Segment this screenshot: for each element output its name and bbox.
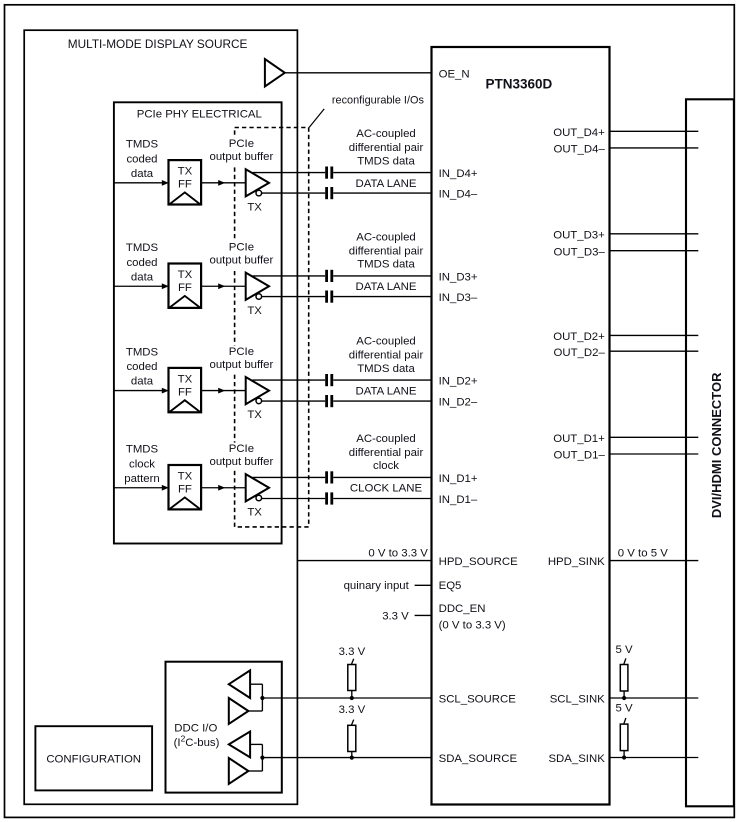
wire IN_D3+ [253,275,326,277]
svg-text:DVI/HDMI CONNECTOR: DVI/HDMI CONNECTOR [709,372,724,518]
svg-text:IN_D4+: IN_D4+ [439,168,478,180]
wire OUT_D4+ [610,130,699,132]
wire HPD_SOURCE [297,560,431,562]
svg-text:TMDS data: TMDS data [357,259,415,271]
svg-text:TMDS: TMDS [126,444,159,456]
wire OUT_D2- [610,350,699,352]
svg-text:PCIe: PCIe [229,346,254,358]
svg-text:SDA_SOURCE: SDA_SOURCE [439,753,518,765]
svg-text:TX: TX [247,409,262,421]
wire SDA_SOURCE [262,757,431,759]
wire IN_D1- [262,498,326,500]
supply tick (SCL 5V) [624,658,626,664]
svg-text:HPD_SINK: HPD_SINK [548,556,605,568]
buffer PCIe TX (D3) [246,273,269,300]
wire TX FF to PCIe output buffer (D1) [201,487,246,489]
junction SCL [260,696,264,700]
buffer SCL receiver [229,670,250,698]
wire TX FF to PCIe output buffer (D4) [201,182,246,184]
svg-text:IN_D1–: IN_D1– [439,494,478,506]
wire TMDS data into TX FF (D3) [114,285,162,287]
block PCIe PHY ELECTRICAL [114,102,282,543]
svg-text:output buffer: output buffer [210,255,274,267]
wire DDC_EN stub [415,614,432,616]
IC PTN3360D [432,47,610,805]
svg-text:data: data [131,168,154,180]
svg-text:TX: TX [247,202,262,214]
svg-text:TMDS: TMDS [126,346,159,358]
wire IN_D1+ [253,476,326,478]
svg-text:pattern: pattern [124,473,159,485]
svg-text:DATA LANE: DATA LANE [356,281,417,293]
svg-text:OUT_D3–: OUT_D3– [554,246,606,258]
junction SDA [260,756,264,760]
wire OUT_D2+ [610,334,699,336]
svg-text:TX: TX [178,269,193,281]
buffer SDA driver [229,758,249,784]
wire SDA buffer join [250,743,262,745]
label PCIe output buffer (D3) [208,241,276,269]
svg-text:DDC_EN: DDC_EN [439,603,486,615]
buffer OE_N driver [265,59,285,87]
wire SCL_SOURCE [262,697,431,699]
svg-text:DATA LANE: DATA LANE [356,178,417,190]
resistor SCL pull-up 5V [620,665,628,692]
block CONFIGURATION [35,726,152,790]
svg-text:TMDS: TMDS [126,242,159,254]
svg-text:IN_D4–: IN_D4– [439,189,478,201]
svg-text:MULTI-MODE DISPLAY SOURCE: MULTI-MODE DISPLAY SOURCE [68,37,248,51]
svg-text:0 V to 3.3 V: 0 V to 3.3 V [368,547,428,559]
wire TX FF to PCIe output buffer (D3) [201,285,246,287]
junction SCL 5V pull-up [622,696,626,700]
capacitor on IN_D4+ [325,167,328,179]
svg-text:differential pair: differential pair [349,245,424,257]
svg-text:PCIe: PCIe [229,443,254,455]
capacitor on IN_D3- [325,291,328,303]
resistor SDA pull-up 5V [620,724,628,751]
svg-text:TX: TX [178,471,193,483]
svg-text:AC-coupled: AC-coupled [356,231,416,243]
label PCIe output buffer (D1) [208,443,276,471]
svg-text:differential pair: differential pair [349,350,424,362]
buffer SDA receiver [229,732,250,758]
wire OE_N [285,72,432,74]
svg-text:IN_D2–: IN_D2– [439,397,478,409]
supply tick (SDA 5V) [624,718,626,724]
svg-text:FF: FF [178,282,192,294]
capacitor on IN_D3+ [325,270,328,282]
wire TMDS data into TX FF (D1) [114,487,162,489]
svg-text:CONFIGURATION: CONFIGURATION [46,753,141,765]
connector DVI/HDMI [686,99,734,806]
wire TMDS data into TX FF (D4) [114,182,162,184]
label PCIe output buffer (D4) [208,138,276,166]
svg-text:OUT_D4–: OUT_D4– [554,144,606,156]
junction SDA 5V pull-up [622,755,626,759]
wire IN_D4- [262,192,326,194]
svg-text:coded: coded [126,361,157,373]
svg-text:AC-coupled: AC-coupled [356,336,416,348]
svg-text:PCIe: PCIe [229,138,254,150]
buffer PCIe TX (D4) [246,169,269,196]
svg-text:OUT_D1–: OUT_D1– [554,450,606,462]
junction SCL pull-up [350,696,354,700]
svg-text:AC-coupled: AC-coupled [356,128,416,140]
wire TMDS data into TX FF (D2) [114,390,162,392]
svg-text:IN_D3+: IN_D3+ [439,272,478,284]
svg-text:FF: FF [178,386,192,398]
svg-text:TX: TX [247,305,262,317]
svg-text:OUT_D1+: OUT_D1+ [553,433,605,445]
label PCIe output buffer (D2) [208,345,276,373]
svg-text:TX: TX [178,374,193,386]
svg-text:AC-coupled: AC-coupled [356,433,416,445]
svg-text:TMDS: TMDS [126,139,159,151]
svg-text:data: data [131,376,154,388]
svg-text:DATA LANE: DATA LANE [356,385,417,397]
svg-text:clock: clock [129,458,155,470]
svg-text:SCL_SOURCE: SCL_SOURCE [439,694,517,706]
svg-text:differential pair: differential pair [349,142,424,154]
buffer PCIe TX (D2) [246,377,269,404]
svg-text:(0 V to 3.3 V): (0 V to 3.3 V) [439,619,506,631]
svg-text:differential pair: differential pair [349,447,424,459]
svg-text:data: data [131,271,154,283]
wire OUT_D3+ [610,233,699,235]
svg-text:OUT_D2+: OUT_D2+ [553,331,605,343]
wire IN_D2+ [253,379,326,381]
svg-text:clock: clock [373,460,399,472]
flip-flop TX FF (D3) [169,264,202,308]
dashed box reconfigurable I/Os [235,128,309,527]
buffer PCIe TX (D1) [246,474,269,501]
svg-text:OE_N: OE_N [439,68,470,80]
capacitor on IN_D1+ [325,471,328,483]
svg-text:coded: coded [126,153,157,165]
svg-text:3.3 V: 3.3 V [339,704,366,716]
svg-text:TMDS data: TMDS data [357,363,415,375]
svg-text:TMDS data: TMDS data [357,155,415,167]
svg-text:OUT_D4+: OUT_D4+ [553,127,605,139]
flip-flop TX FF (D1) [169,465,202,509]
wire SDA_SINK [610,757,699,759]
label reconfigurable I/Os with leader line [309,109,324,127]
svg-text:PCIe PHY ELECTRICAL: PCIe PHY ELECTRICAL [137,108,262,120]
wire OUT_D3- [610,250,699,252]
svg-text:SCL_SINK: SCL_SINK [550,694,605,706]
svg-text:IN_D3–: IN_D3– [439,292,478,304]
capacitor on IN_D2+ [325,374,328,386]
block DDC I/O (I2C-bus) [166,662,282,793]
svg-text:IN_D2+: IN_D2+ [439,376,478,388]
svg-text:OUT_D2–: OUT_D2– [554,347,606,359]
supply tick (SCL 3.3V) [351,659,353,665]
capacitor on IN_D2- [325,395,328,407]
svg-text:PCIe: PCIe [229,242,254,254]
svg-text:(I2C-bus): (I2C-bus) [174,733,220,748]
svg-text:coded: coded [126,257,157,269]
svg-text:TX: TX [178,166,193,178]
svg-text:3.3 V: 3.3 V [339,646,366,658]
svg-text:IN_D1+: IN_D1+ [439,473,478,485]
capacitor on IN_D1- [325,492,328,504]
buffer SCL driver [229,698,249,724]
wire SCL_SINK [610,697,699,699]
flip-flop TX FF (D2) [169,368,202,412]
svg-text:FF: FF [178,484,192,496]
wire IN_D2- [262,400,326,402]
wire SCL buffer join [250,683,262,685]
supply tick (SDA 3.3V) [351,720,353,726]
svg-text:output buffer: output buffer [210,359,274,371]
svg-text:5 V: 5 V [616,702,633,714]
svg-text:OUT_D3+: OUT_D3+ [553,229,605,241]
svg-text:TX: TX [247,506,262,518]
svg-text:FF: FF [178,179,192,191]
resistor SDA pull-up 3.3V [348,725,356,751]
resistor SCL pull-up 3.3V [348,665,356,691]
svg-text:5 V: 5 V [616,644,633,656]
capacitor on IN_D4- [325,187,328,199]
flip-flop TX FF (D4) [169,160,202,204]
block MULTI-MODE DISPLAY SOURCE [24,30,297,804]
wire TX FF to PCIe output buffer (D2) [201,390,246,392]
svg-text:EQ5: EQ5 [439,580,462,592]
svg-text:0 V to 5 V: 0 V to 5 V [618,547,668,559]
wire IN_D4+ [253,172,326,174]
svg-text:PTN3360D: PTN3360D [486,77,553,92]
wire OUT_D1+ [610,436,699,438]
wire EQ5 stub [415,584,432,586]
svg-text:3.3 V: 3.3 V [382,610,409,622]
wire OUT_D1- [610,453,699,455]
wire IN_D3- [262,296,326,298]
wire HPD_SINK [610,560,699,562]
svg-text:output buffer: output buffer [210,456,274,468]
svg-text:output buffer: output buffer [210,151,274,163]
svg-text:HPD_SOURCE: HPD_SOURCE [439,556,519,568]
svg-text:CLOCK LANE: CLOCK LANE [350,483,423,495]
wire OUT_D4- [610,147,699,149]
svg-text:reconfigurable I/Os: reconfigurable I/Os [332,94,425,106]
junction SDA pull-up [350,756,354,760]
svg-text:SDA_SINK: SDA_SINK [548,753,605,765]
svg-text:quinary input: quinary input [344,580,410,592]
